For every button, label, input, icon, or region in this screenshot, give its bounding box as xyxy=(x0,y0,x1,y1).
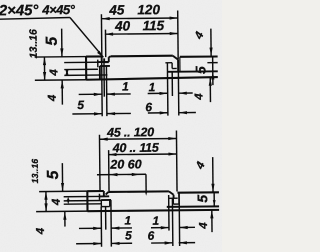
b right joint inner vertical xyxy=(178,193,180,204)
svg-text:120: 120 xyxy=(137,2,160,17)
b right joint floor xyxy=(167,205,219,208)
svg-text:5: 5 xyxy=(125,228,132,242)
left joint U-cup right wall xyxy=(108,57,110,62)
13..16 up arrowhead xyxy=(43,57,46,65)
svg-text:4: 4 xyxy=(51,198,63,206)
right bottom dim 4 text xyxy=(193,93,205,101)
left joint gap line lower xyxy=(100,65,110,67)
b left joint shoulder vertical xyxy=(103,191,105,196)
left joint lower vertical xyxy=(99,66,101,80)
right cluster dim vertical xyxy=(212,57,214,85)
svg-text:115: 115 xyxy=(142,18,164,33)
row A left tail arrowhead xyxy=(107,93,115,96)
b board left edge xyxy=(86,191,88,211)
left joint descender c xyxy=(105,66,107,116)
b 13..16 text xyxy=(30,159,40,184)
svg-text:5: 5 xyxy=(194,195,210,203)
right bottom dim 4 vertical xyxy=(209,78,211,103)
b right joint step horizontal xyxy=(173,203,179,205)
row B left tail xyxy=(107,112,131,114)
left joint mini chamfer xyxy=(109,55,111,58)
row B text 5 xyxy=(77,98,84,112)
row2 text 40 xyxy=(114,18,131,33)
b row B right tail arrowhead xyxy=(179,241,187,244)
b row2 left arrowhead xyxy=(108,153,116,156)
b right bottom dim 4 text xyxy=(198,222,210,230)
b neighbour board top face xyxy=(177,191,218,193)
svg-text:40 .. 115: 40 .. 115 xyxy=(112,141,160,155)
b row B left arrowhead xyxy=(93,242,101,245)
13..16 text xyxy=(28,29,40,58)
svg-text:4: 4 xyxy=(193,93,205,101)
b right bottom dim 4 arrowhead xyxy=(210,210,213,218)
left joint U-cup left wall xyxy=(103,58,105,62)
row2 left arrowhead xyxy=(105,32,113,35)
board left edge xyxy=(85,57,87,80)
b 13..16 up arrowhead xyxy=(44,192,47,200)
b row2 line 40..115 xyxy=(108,153,176,156)
leader arrowhead xyxy=(97,51,104,58)
b left joint gap line upper xyxy=(99,195,109,197)
main board top face xyxy=(111,55,173,58)
b extension right xyxy=(175,130,178,191)
b left dim 4 mid upper arrowhead xyxy=(67,197,70,201)
b row1 left arrowhead xyxy=(100,138,108,141)
b row2 text xyxy=(112,141,160,155)
right joint step vertical xyxy=(171,63,173,69)
bottom face full xyxy=(86,77,218,80)
left joint shoulder vertical xyxy=(101,56,103,62)
b left joint descender a xyxy=(100,207,102,247)
b row2 right arrowhead xyxy=(168,152,176,155)
left dim 4 mid lower arrowhead xyxy=(65,70,68,75)
left joint gap line upper xyxy=(98,61,108,63)
svg-text:6: 6 xyxy=(147,229,154,243)
b right end vertical xyxy=(173,195,175,198)
b left dim 5 text xyxy=(45,169,62,179)
left dim 5 text xyxy=(44,36,61,46)
b bottom face extension left xyxy=(36,210,88,212)
right dim 5 text xyxy=(192,66,208,74)
13..16 left extension top face line xyxy=(35,56,87,58)
b right cluster vertical xyxy=(213,193,215,206)
b row B right line xyxy=(151,242,173,244)
left joint small vertical xyxy=(97,60,99,68)
b 13..16 down arrowhead xyxy=(44,203,47,211)
svg-text:1: 1 xyxy=(152,214,159,228)
top dim row2 line 40..115 xyxy=(105,32,178,35)
right short extension line xyxy=(207,62,217,64)
neighbour board left edge xyxy=(179,57,181,72)
svg-text:4: 4 xyxy=(198,222,210,230)
row B right tail xyxy=(179,112,196,114)
b left step extension line 1 xyxy=(64,195,100,197)
right top dim 4 arrowhead xyxy=(209,48,212,56)
svg-text:4: 4 xyxy=(48,69,60,77)
paper grain xyxy=(0,0,1,1)
left bottom dim 4 arrowhead xyxy=(61,80,64,88)
b row3 drop vertical xyxy=(145,174,147,190)
row2 text 115 xyxy=(142,18,164,33)
b left bottom dim 4 vertical xyxy=(64,212,66,227)
b row B text 5 xyxy=(125,228,132,242)
b row3 right arrowhead xyxy=(132,173,140,176)
bottom face extension left xyxy=(35,79,87,81)
svg-text:4×45°: 4×45° xyxy=(41,2,75,17)
b right joint gap line xyxy=(169,197,178,199)
bottom dim row A left line xyxy=(79,93,102,95)
b right cluster up arrowhead xyxy=(213,200,216,206)
b row1 right arrowhead xyxy=(168,137,176,140)
b right top dim 4 arrowhead xyxy=(211,184,214,192)
row B text 6 xyxy=(145,100,152,114)
svg-text:4: 4 xyxy=(35,227,47,235)
left dim 4 mid upper arrowhead xyxy=(65,70,68,75)
svg-text:5: 5 xyxy=(192,66,208,74)
row B right tail arrowhead xyxy=(179,111,187,114)
row1 left arrowhead xyxy=(101,17,109,20)
leader diagonal to chamfer xyxy=(70,17,103,57)
svg-text:13..16: 13..16 xyxy=(28,29,40,58)
chamfer label text 2x45 xyxy=(0,2,39,19)
svg-text:5: 5 xyxy=(77,98,84,112)
b left step extension line 3 xyxy=(64,203,102,205)
right end vertical xyxy=(177,60,179,72)
13..16 dim vertical xyxy=(43,57,45,80)
svg-text:13..16: 13..16 xyxy=(30,159,40,184)
extension line right end xyxy=(177,10,179,59)
svg-text:45: 45 xyxy=(108,2,125,17)
13..16 down arrowhead xyxy=(43,72,46,80)
b row A right arrowhead xyxy=(161,226,169,229)
right end chamfer xyxy=(173,56,178,60)
b extension row1 left xyxy=(98,135,101,191)
chamfer label text 4x45 xyxy=(41,2,75,17)
row A text 1 right xyxy=(149,80,156,94)
paper background xyxy=(0,0,222,252)
b left dim 5 vertical xyxy=(61,163,63,191)
right joint descender a xyxy=(166,63,169,116)
b row B left tail arrowhead xyxy=(111,242,119,245)
row1 right arrowhead xyxy=(170,16,178,19)
right cluster up arrowhead xyxy=(211,71,214,79)
left joint descender b xyxy=(103,62,105,97)
svg-text:5: 5 xyxy=(44,36,61,46)
b bottom dim row B left line xyxy=(76,243,101,245)
extension line left of row1 xyxy=(100,14,102,62)
b row1 text xyxy=(106,125,154,139)
leader shelf line xyxy=(0,18,70,20)
row A right tail arrowhead xyxy=(179,92,187,95)
right bottom dim 4 arrowhead xyxy=(209,78,212,86)
neighbour board top face xyxy=(180,55,218,57)
right top dim 4 vertical xyxy=(210,29,212,56)
row A right tail xyxy=(179,92,193,94)
b row A left arrowhead xyxy=(93,227,101,230)
svg-text:45 .. 120: 45 .. 120 xyxy=(106,125,154,139)
b 13..16 dim vertical xyxy=(45,192,47,212)
row B right arrowhead xyxy=(160,111,168,114)
b left dim 4 mid lower arrowhead xyxy=(67,200,70,204)
row A right line xyxy=(148,92,168,94)
b left joint chamfer xyxy=(106,192,109,195)
right top dim 4 text xyxy=(192,30,206,42)
row A text 1 left xyxy=(122,79,129,93)
row1 text 45 xyxy=(108,2,125,17)
svg-text:1: 1 xyxy=(122,79,129,93)
row A left tail xyxy=(107,93,131,95)
left joint descender a xyxy=(101,62,104,116)
b bottom dim row A left line xyxy=(79,227,101,229)
b row A text 1 left xyxy=(124,213,131,227)
b extension row2 left xyxy=(108,150,110,192)
svg-text:6: 6 xyxy=(145,100,152,114)
b row3 left arrowhead xyxy=(109,173,117,176)
left bottom dim 4 vertical xyxy=(61,80,63,104)
right joint descender c xyxy=(177,72,179,116)
b 13..16 left extension top face line xyxy=(39,190,87,192)
left step extension line lower xyxy=(64,74,107,76)
left dim 5 arrowhead xyxy=(60,48,63,56)
b left joint descender b xyxy=(105,207,107,230)
left step extension line middle xyxy=(64,68,98,70)
left bottom dim 4 text xyxy=(47,94,59,102)
b right joint descender b xyxy=(171,198,173,246)
b right joint descender a xyxy=(168,195,170,231)
b row A left tail arrowhead xyxy=(111,227,119,230)
b right top dim 4 text xyxy=(194,160,208,172)
left joint U-cup floor xyxy=(104,61,109,63)
b row B right arrowhead xyxy=(165,241,173,244)
b left bottom dim 4 text xyxy=(35,227,47,235)
right joint descender b xyxy=(171,72,173,96)
b left bottom dim 4 arrowhead xyxy=(63,212,66,220)
b right dim 5 text xyxy=(194,195,210,203)
svg-text:2×45°: 2×45° xyxy=(0,2,39,19)
b row3 text xyxy=(109,157,141,171)
b right joint step vertical xyxy=(172,198,174,204)
svg-text:4: 4 xyxy=(47,94,59,102)
b row A right tail xyxy=(179,226,194,228)
b left dim 5 arrowhead xyxy=(61,183,64,191)
b main board top face xyxy=(108,190,168,193)
row B left tail arrowhead xyxy=(107,112,115,115)
b row A left tail xyxy=(111,227,132,229)
b right end chamfer xyxy=(169,191,174,194)
row B left arrowhead xyxy=(94,112,102,115)
b row B right tail xyxy=(179,242,195,244)
svg-text:1: 1 xyxy=(124,213,131,227)
svg-text:1: 1 xyxy=(149,80,156,94)
svg-text:5: 5 xyxy=(45,169,62,179)
right joint gap line xyxy=(165,62,172,64)
extension line left of row2 xyxy=(104,30,106,57)
b row B text 6 xyxy=(147,229,154,243)
b left step extension line 2 xyxy=(64,200,101,202)
b left joint descender c xyxy=(110,200,112,247)
b right joint descender c xyxy=(178,192,181,245)
b row3 line 20..60 xyxy=(97,173,146,175)
svg-text:20 60: 20 60 xyxy=(109,157,141,171)
svg-text:40: 40 xyxy=(114,18,131,33)
b left dim 4 mid text xyxy=(51,198,63,206)
b row A right tail arrowhead xyxy=(179,226,187,229)
row2 right arrowhead xyxy=(170,32,178,35)
b row A right line xyxy=(151,227,169,229)
b row1 line 45..120 xyxy=(100,137,177,140)
row A left arrowhead xyxy=(94,93,102,96)
b right bottom dim 4 vertical xyxy=(211,210,213,232)
left dim 4 mid text xyxy=(48,69,60,77)
right joint rabbet floor xyxy=(167,70,217,72)
left dim 5 vertical xyxy=(61,29,63,57)
row B right line xyxy=(148,112,168,114)
left step extension line upper xyxy=(64,61,108,63)
row1 text 120 xyxy=(137,2,160,17)
row A right arrowhead xyxy=(159,92,167,95)
b left board top face xyxy=(87,190,103,192)
b row B left tail xyxy=(111,242,132,244)
b left joint small vertical xyxy=(98,194,100,200)
right joint step horizontal xyxy=(172,67,177,69)
b left joint tongue box xyxy=(101,200,109,207)
b right top dim 4 vertical xyxy=(212,157,214,192)
b row3 drop arrowhead xyxy=(145,191,148,196)
b left joint gap line lower xyxy=(101,199,111,201)
left board top face xyxy=(86,55,102,57)
top dim row1 line 45..120 xyxy=(101,17,177,20)
b bottom face full xyxy=(88,210,220,211)
b row A text 1 right xyxy=(152,214,159,228)
bottom dim row B left line xyxy=(72,113,102,115)
